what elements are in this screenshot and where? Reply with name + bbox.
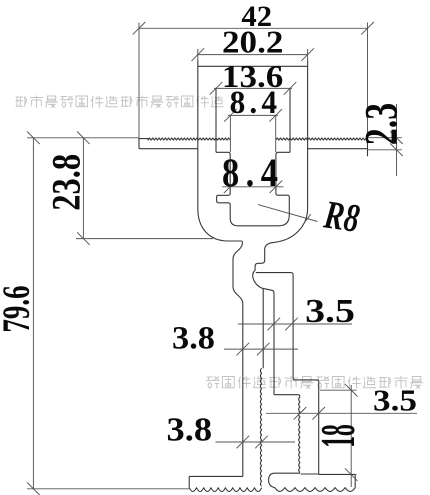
dim 2.3 ext bottom [368, 149, 402, 151]
watermark company name lower-right [206, 376, 423, 389]
dim 3.5 lower tick left [294, 407, 307, 420]
svg-text:20.2: 20.2 [222, 25, 283, 60]
dim 13.6 line [214, 87, 292, 89]
dim 8.4 upper tick right [269, 109, 282, 122]
dim 3.5 lower line [266, 412, 417, 414]
dim 23.8 line [82, 138, 84, 239]
dim 2.3 line [396, 104, 398, 176]
right flange right edge [367, 138, 369, 157]
right leg inner step [274, 395, 300, 397]
dim 20.2 ext right [307, 49, 309, 66]
fin neck right wall with jog and curled tip [253, 249, 274, 293]
dim 23.8 tick bottom [77, 232, 90, 245]
right leg outer step at y380 [293, 378, 319, 382]
dim 3.8 lower tick right [255, 436, 268, 449]
right flange bottom [308, 148, 368, 150]
leader R8 tick [303, 214, 311, 224]
left foot top [189, 475, 243, 477]
fin left wall with bulge [233, 241, 243, 476]
dim 20.2 tick right [301, 48, 314, 61]
dim 3.5 upper line [238, 323, 352, 325]
cup floor [238, 225, 278, 227]
dim 13.6 tick right [284, 82, 297, 95]
dim 79.6/23.8 ext top [27, 137, 139, 139]
dim 8.4 upper ext left [229, 115, 231, 152]
svg-text:3.8: 3.8 [167, 411, 212, 449]
dim 3.8 lower line [216, 441, 296, 443]
svg-text:3.8: 3.8 [172, 320, 215, 356]
dim 3.8 upper tick left [237, 343, 250, 356]
right foot top-left and rounded corner [269, 473, 300, 487]
svg-text:R8: R8 [321, 192, 363, 241]
dim 2.3 tick bottom [390, 144, 403, 157]
profile outer right wall and R8 outer curve [265, 61, 308, 250]
dim 20.2 tick left [192, 48, 205, 61]
dim 42 tick right [361, 22, 374, 35]
dim 8.4 lower tick right [270, 181, 283, 194]
dim 42 tick left [133, 22, 146, 35]
slot left rib and groove [216, 152, 238, 226]
svg-text:79.6: 79.6 [0, 285, 38, 332]
profile top edge [198, 65, 308, 67]
svg-text:3.5: 3.5 [305, 292, 355, 329]
right leg inner knurled wall [299, 397, 300, 473]
slot mouth left wall [215, 88, 217, 152]
dim 20.2 line [198, 54, 308, 56]
profile outer left wall and cup bottom-left [198, 61, 242, 242]
dim 23.8 ext bottom [76, 238, 213, 240]
dim 8.4 upper ext right [275, 115, 277, 152]
dim 18 line [350, 385, 352, 487]
right leg outer lower wall [318, 382, 320, 475]
dim 3.5 upper tick left [268, 318, 281, 331]
cup inner right wall [276, 152, 290, 226]
dim 13.6 tick left [210, 82, 223, 95]
dim 8.4 lower line [222, 186, 284, 188]
dim 18 tick bottom [345, 468, 358, 481]
right foot top line across leg [301, 473, 319, 475]
svg-text:23.8: 23.8 [44, 154, 88, 211]
dim 3.5 upper tick right [285, 318, 298, 331]
slot mouth right wall [289, 88, 291, 152]
fin right wall upper [262, 289, 264, 369]
dim 18 ext top [320, 389, 357, 391]
dim 3.8 lower tick left [237, 436, 250, 449]
dim 23.8 tick top [77, 132, 90, 145]
dim 20.2 ext left [197, 49, 199, 66]
left flange left edge [138, 138, 140, 149]
dim 8.4 upper line [228, 114, 278, 116]
dim 42 ext right [367, 23, 369, 138]
right leg inner wall upper [273, 293, 275, 395]
dim 3.5 lower tick right [312, 407, 325, 420]
dim 8.4 upper tick left [224, 109, 237, 122]
tongue top web [256, 273, 293, 276]
watermark company name upper-left [16, 96, 224, 108]
right flange serrated top [276, 138, 368, 140]
right foot right edge [354, 474, 356, 487]
left flange serrated top [139, 138, 230, 140]
svg-text:8.4: 8.4 [230, 83, 281, 120]
dim 79.6 line [32, 138, 34, 489]
dim 8.4 lower tick left [224, 181, 237, 194]
dim 42 ext left [138, 23, 140, 138]
left foot serrated bottom [189, 488, 262, 492]
dim 18 ext bottom [355, 474, 356, 476]
svg-text:3.5: 3.5 [373, 383, 417, 418]
dim 3.8 upper line [224, 348, 298, 350]
svg-text:18: 18 [312, 424, 366, 448]
dim 2.3 tick top [390, 131, 403, 144]
fin right knurled wall [260, 368, 261, 486]
right foot top-right [319, 473, 356, 475]
left flange bottom [139, 148, 198, 150]
dim 42 line [139, 27, 368, 29]
right leg outer upper wall [292, 275, 294, 378]
dim 79.6 tick top [27, 132, 40, 145]
svg-text:8.4: 8.4 [222, 151, 284, 195]
left foot left edge [188, 476, 190, 487]
leader R8 line [258, 205, 318, 222]
svg-text:2.3: 2.3 [355, 103, 407, 145]
dim 3.8 upper tick right [257, 343, 270, 356]
right foot serrated bottom [275, 488, 355, 492]
dim 79.6 ext bottom [27, 488, 189, 490]
dim 79.6 tick bottom [27, 483, 40, 495]
dim 18 tick top [345, 384, 358, 397]
dim 2.3 ext top [368, 137, 402, 139]
